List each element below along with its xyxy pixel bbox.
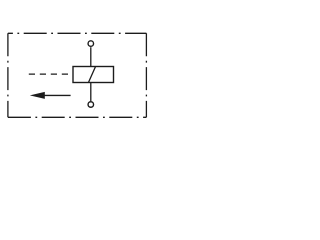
dashed control line to K1	[29, 73, 73, 75]
component K1 body (box)	[73, 67, 114, 83]
wire: K1 to terminal B	[90, 83, 92, 102]
enclosure frame left border	[7, 33, 9, 117]
wire: terminal A to K1	[90, 47, 92, 66]
flow direction arrow head	[30, 92, 45, 99]
terminal B (bottom circle)	[88, 102, 94, 108]
flow direction arrow shaft	[44, 94, 71, 96]
K1 adjustment slash	[89, 67, 96, 83]
enclosure frame bottom border	[8, 116, 147, 118]
terminal A (top circle)	[88, 41, 94, 47]
enclosure frame top border	[8, 32, 147, 34]
enclosure frame right border	[145, 33, 147, 117]
